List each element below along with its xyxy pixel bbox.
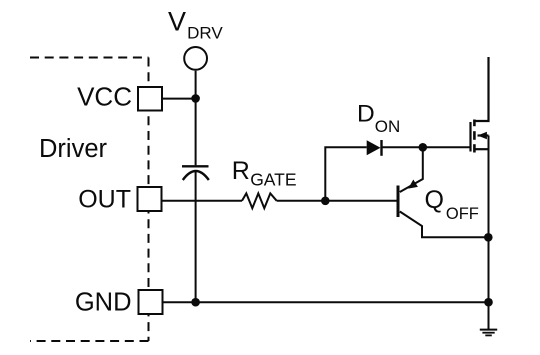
MOSFET channel segment (source): [473, 144, 476, 152]
junction dot node B: [419, 143, 428, 152]
wire ground rail to earth symbol: [488, 302, 490, 329]
svg-text:GND: GND: [75, 289, 132, 317]
Q_OFF base bar: [397, 186, 400, 218]
wire capacitor bottom to ground rail: [195, 171, 197, 302]
pin square VCC: [138, 87, 162, 111]
svg-text:VCC: VCC: [77, 82, 132, 112]
junction dot capacitor to ground rail: [191, 298, 200, 307]
capacitor C (top plate): [182, 165, 209, 167]
MOSFET gate bar: [469, 122, 471, 152]
wire MOSFET source down to ground: [488, 136, 490, 303]
MOSFET (N-channel): [471, 57, 489, 153]
ground symbol: [480, 330, 497, 336]
diode D_ON (anode triangle): [367, 140, 381, 155]
svg-text:GATE: GATE: [250, 170, 296, 190]
transistor Q_OFF (PNP): [398, 147, 488, 237]
wire node B to MOSFET gate: [423, 146, 471, 148]
pin square OUT: [138, 187, 162, 211]
svg-text:Q: Q: [425, 186, 444, 214]
wire V_DRV supply down: [195, 71, 197, 166]
junction dot collector to source rail: [484, 233, 493, 242]
Q_OFF collector wire: [400, 212, 489, 238]
Q_OFF emitter wire: [400, 147, 423, 192]
driver block dashed outline: [30, 58, 149, 342]
resistor R_GATE: [242, 193, 277, 208]
Q_OFF emitter arrow (PNP, pointing into base): [408, 180, 418, 189]
wire diode cathode to node B: [383, 146, 423, 148]
junction dot node A: [321, 197, 330, 206]
MOSFET body stub: [478, 134, 489, 136]
pin square GND: [139, 290, 163, 314]
wire resistor to node A: [277, 200, 326, 202]
supply terminal V_DRV (circle): [184, 47, 207, 70]
svg-text:D: D: [357, 101, 375, 128]
wire node A to transistor base: [325, 200, 397, 202]
svg-text:Driver: Driver: [39, 135, 108, 163]
wire OUT pin to resistor: [162, 200, 243, 202]
MOSFET channel segment (drain): [473, 120, 476, 127]
capacitor C (curved bottom plate): [183, 171, 209, 180]
svg-text:ON: ON: [375, 117, 401, 136]
svg-text:DRV: DRV: [187, 24, 223, 43]
diode D_ON (cathode bar): [380, 140, 382, 156]
MOSFET channel segment (body): [473, 131, 476, 140]
svg-text:R: R: [232, 157, 250, 185]
svg-text:OUT: OUT: [78, 185, 131, 213]
MOSFET source stub: [474, 148, 488, 150]
wire ground rail: [163, 301, 489, 303]
junction dot ground rail right: [484, 298, 493, 307]
svg-text:OFF: OFF: [446, 205, 479, 223]
wire VCC pin to V_DRV node: [162, 98, 196, 100]
MOSFET body arrow: [478, 132, 487, 140]
MOSFET drain stub and drain lead up: [474, 57, 488, 121]
svg-text:V: V: [168, 7, 186, 37]
junction dot at VCC / V_DRV node: [191, 94, 200, 103]
wire node A up to diode anode: [325, 147, 366, 201]
